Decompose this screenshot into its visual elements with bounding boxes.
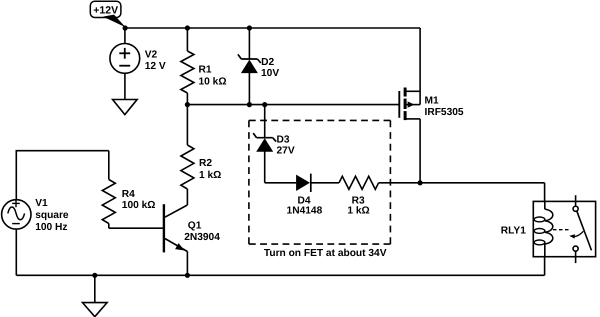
wire V1 bottom xyxy=(15,229,17,275)
svg-text:10 kΩ: 10 kΩ xyxy=(199,77,227,88)
svg-text:100 kΩ: 100 kΩ xyxy=(122,200,156,211)
relay RLY1 xyxy=(501,195,596,263)
node at +12V xyxy=(123,25,128,30)
wire Q1 base xyxy=(109,227,164,229)
svg-text:RLY1: RLY1 xyxy=(501,226,526,237)
svg-text:V2: V2 xyxy=(145,50,158,61)
svg-text:V1: V1 xyxy=(35,198,48,209)
wire gate rail xyxy=(187,104,399,106)
wire V1 top to R4 xyxy=(16,151,109,200)
voltage source V1 xyxy=(2,198,69,233)
svg-text:1N4148: 1N4148 xyxy=(287,206,323,217)
svg-text:2N3904: 2N3904 xyxy=(184,232,220,243)
svg-text:27V: 27V xyxy=(277,146,295,157)
svg-text:Q1: Q1 xyxy=(188,220,202,231)
wire bottom rail xyxy=(16,274,544,276)
node Q1 emitter xyxy=(185,273,190,278)
svg-text:1 kΩ: 1 kΩ xyxy=(199,170,221,181)
wire relay coil top xyxy=(544,183,546,202)
svg-text:10V: 10V xyxy=(261,68,279,79)
wire R3 to relay xyxy=(379,182,545,184)
wire V2 top xyxy=(124,28,126,44)
resistor R4 xyxy=(102,151,155,229)
wire D3 to D4 xyxy=(265,182,296,184)
diode D4 xyxy=(287,174,323,217)
svg-text:square: square xyxy=(35,210,69,221)
resistor R1 xyxy=(181,28,227,105)
node M1 drain xyxy=(418,180,423,185)
svg-text:R2: R2 xyxy=(199,158,212,169)
svg-text:R1: R1 xyxy=(199,64,212,75)
wire V2 bottom xyxy=(124,73,126,99)
wire relay bottom xyxy=(544,257,546,276)
ground (bottom) xyxy=(83,275,108,316)
zener diode D2 xyxy=(238,28,279,105)
net label +12V xyxy=(90,1,125,27)
ground (V2) xyxy=(113,100,138,115)
node R1 top xyxy=(185,25,190,30)
wire top rail xyxy=(125,27,420,29)
svg-text:R4: R4 xyxy=(122,189,135,200)
voltage source V2 xyxy=(110,44,166,74)
wire D4 to R3 xyxy=(311,182,339,184)
svg-text:IRF5305: IRF5305 xyxy=(425,107,464,118)
svg-text:D3: D3 xyxy=(277,135,290,146)
resistor R3 xyxy=(339,176,379,216)
svg-text:1 kΩ: 1 kΩ xyxy=(347,206,369,217)
node D2 bottom xyxy=(247,102,252,107)
zener diode D3 xyxy=(253,105,295,183)
svg-text:12 V: 12 V xyxy=(145,61,166,72)
svg-text:100 Hz: 100 Hz xyxy=(35,222,67,233)
mosfet M1 xyxy=(399,28,464,183)
svg-text:M1: M1 xyxy=(425,95,439,106)
resistor R2 xyxy=(181,105,221,205)
svg-text:Turn on FET at about 34V: Turn on FET at about 34V xyxy=(264,248,387,259)
node D2 top xyxy=(247,25,252,30)
transistor Q1 xyxy=(164,204,220,275)
node D3 top xyxy=(262,102,267,107)
svg-text:D2: D2 xyxy=(261,57,274,68)
svg-text:+12V: +12V xyxy=(93,4,118,16)
node R1/R2 xyxy=(185,102,190,107)
dashed box xyxy=(249,119,391,121)
node ground xyxy=(92,273,97,278)
